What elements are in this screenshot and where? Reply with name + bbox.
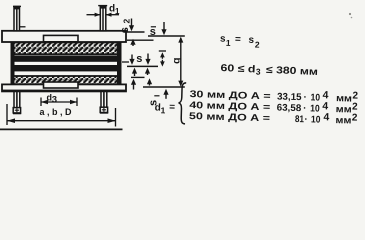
top thin sheet s2 xyxy=(44,35,79,41)
svg-text:=: = xyxy=(169,102,175,113)
svg-text:1: 1 xyxy=(115,7,120,16)
svg-text:2: 2 xyxy=(352,113,358,124)
bottom clamp plate xyxy=(2,84,126,91)
formula block d1 = { three cases xyxy=(154,82,358,129)
svg-text:1: 1 xyxy=(160,105,165,115)
svg-text:мм: мм xyxy=(336,104,352,115)
up arrow e under M2 xyxy=(133,83,135,89)
line M xyxy=(127,65,158,67)
down arrow onto L3 xyxy=(163,22,165,31)
svg-text:2: 2 xyxy=(352,102,358,113)
svg-text:10: 10 xyxy=(310,92,320,103)
stack body: bottom rubber pad (hatched) xyxy=(14,76,119,84)
svg-text:мм: мм xyxy=(336,93,352,104)
svg-text:10: 10 xyxy=(311,114,321,125)
svg-text:2: 2 xyxy=(121,19,131,24)
formula s1 = s2 xyxy=(220,34,261,50)
plate bar 1 (black) xyxy=(14,56,119,62)
T line small xyxy=(159,50,166,52)
svg-text:·: · xyxy=(304,114,308,125)
svg-text:4: 4 xyxy=(323,111,329,123)
svg-text:81: 81 xyxy=(295,114,305,125)
stud top-right xyxy=(98,6,107,31)
stack left edge bar xyxy=(11,42,15,85)
dimension d3 (bottom) xyxy=(41,93,77,107)
line B xyxy=(143,86,185,88)
svg-text:3: 3 xyxy=(256,66,261,76)
stud bottom-left with nut xyxy=(13,92,21,114)
down arrow below (to M level) xyxy=(161,60,163,63)
bottom rule line xyxy=(0,128,123,130)
mid down arrow b xyxy=(147,54,149,61)
up arrow under T xyxy=(161,56,163,59)
s2 down arrow onto L1 xyxy=(131,19,133,27)
svg-text:≤ 380 мм: ≤ 380 мм xyxy=(266,65,318,78)
stack body: top rubber pad (hatched) xyxy=(14,42,119,54)
svg-text:a , b , D: a , b , D xyxy=(40,107,73,117)
extension line L3 xyxy=(148,35,185,37)
extension line L1 xyxy=(124,31,145,33)
svg-text:3: 3 xyxy=(52,94,57,105)
svg-text:2: 2 xyxy=(255,39,260,49)
stub line mid xyxy=(122,61,129,63)
brace xyxy=(178,83,186,124)
svg-text:мм: мм xyxy=(335,115,351,126)
svg-text:33,15: 33,15 xyxy=(277,91,302,103)
svg-text:50 мм ДО А =: 50 мм ДО А = xyxy=(189,111,271,124)
stack right edge bar xyxy=(117,42,122,85)
svg-text:1: 1 xyxy=(226,38,231,48)
stud bottom-right with nut xyxy=(100,92,108,114)
mid up arrow d xyxy=(147,72,149,75)
bottom thin sheet s1 xyxy=(44,82,79,88)
svg-text:·: · xyxy=(303,92,307,103)
extension line L2 xyxy=(127,39,154,41)
svg-text:63,58: 63,58 xyxy=(277,102,302,114)
mid down arrow a xyxy=(131,55,133,61)
svg-text:s: s xyxy=(248,35,254,46)
dimension a,b,D (bottom overall width) xyxy=(7,104,116,127)
svg-text:=: = xyxy=(235,34,241,45)
s2 up arrow under L2 xyxy=(132,43,134,46)
svg-text:2: 2 xyxy=(352,91,358,102)
top clamp plate xyxy=(2,31,126,42)
line M2 xyxy=(131,76,145,78)
up arrow under line B xyxy=(165,93,167,99)
stud top-left xyxy=(13,6,21,30)
svg-text:s: s xyxy=(136,53,142,65)
svg-text:b: b xyxy=(171,58,183,64)
dimension d1 (top right stud) xyxy=(87,4,121,17)
up arrow f under M2 xyxy=(149,83,151,86)
plate bar 2 (black) xyxy=(14,65,119,71)
scan speck xyxy=(349,13,351,15)
svg-text:10: 10 xyxy=(310,103,320,114)
svg-text:·: · xyxy=(303,103,307,114)
formula 60 <= d3 <= 380 mm xyxy=(220,63,318,79)
mid up arrow c xyxy=(134,72,136,76)
tick right of top-left stud xyxy=(20,26,26,28)
label s1 (rotated, with tick) xyxy=(154,95,159,97)
label s with tick (top right) xyxy=(151,26,156,28)
vertical dimension line with label b xyxy=(180,38,182,86)
svg-text:60 ≤ d: 60 ≤ d xyxy=(220,63,255,75)
